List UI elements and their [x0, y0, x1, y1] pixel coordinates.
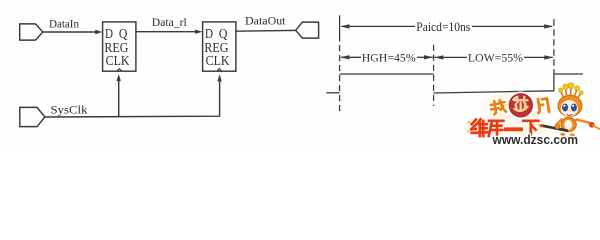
svg-text:Q: Q: [219, 27, 228, 42]
register U2: [203, 22, 236, 71]
watermark background glow: [463, 92, 551, 140]
watermark 找 character: [490, 99, 506, 114]
connector DataIn: [20, 24, 43, 40]
U1 clock edge marker: [117, 69, 122, 72]
svg-text:D: D: [105, 27, 113, 42]
dimension arrow Paicd: [342, 25, 416, 27]
dashed marker line left: [339, 15, 341, 41]
svg-text:www.dzsc.com: www.dzsc.com: [492, 133, 578, 147]
dashed marker line right: [553, 19, 555, 74]
dashed marker line middle: [433, 45, 435, 106]
svg-text:SysClk: SysClk: [51, 103, 88, 117]
waveform previous-period low stub: [326, 92, 339, 94]
connector SysClk: [20, 107, 45, 126]
svg-text:LOW=55%: LOW=55%: [468, 50, 523, 64]
wire Data_rl: [136, 31, 197, 33]
register U1: [103, 22, 136, 71]
wire DataOut: [236, 29, 296, 32]
mascot pen: [541, 125, 568, 130]
waveform rising edge at period end: [553, 74, 555, 91]
connector DataOut: [296, 22, 319, 38]
watermark 片 character: [536, 98, 549, 114]
wire DataIn to U1: [43, 31, 97, 33]
svg-text:Paicd=10ns: Paicd=10ns: [416, 20, 470, 34]
dimension arrow LOW: [435, 56, 468, 58]
svg-text:D: D: [205, 27, 213, 42]
watermark 维库一下 text: [467, 119, 538, 137]
watermark magnifier circle with 芯: [508, 93, 533, 118]
waveform high segment: [340, 73, 434, 75]
U2 clock edge marker: [217, 69, 222, 72]
dimension arrow HGH: [341, 56, 361, 58]
waveform next-period high stub: [554, 73, 583, 75]
svg-text:DataIn: DataIn: [49, 16, 79, 30]
waveform low segment: [434, 91, 554, 93]
svg-text:DataOut: DataOut: [245, 13, 286, 27]
wire SysClk branch to U1 clock: [118, 78, 120, 117]
wire SysClk trunk: [45, 78, 220, 117]
svg-text:HGH=45%: HGH=45%: [362, 50, 416, 64]
svg-text:CLK: CLK: [106, 54, 130, 69]
svg-text:Data_rl: Data_rl: [152, 15, 188, 29]
svg-text:Q: Q: [119, 27, 128, 42]
watermark mascot: [538, 83, 600, 137]
svg-text:CLK: CLK: [206, 54, 230, 69]
